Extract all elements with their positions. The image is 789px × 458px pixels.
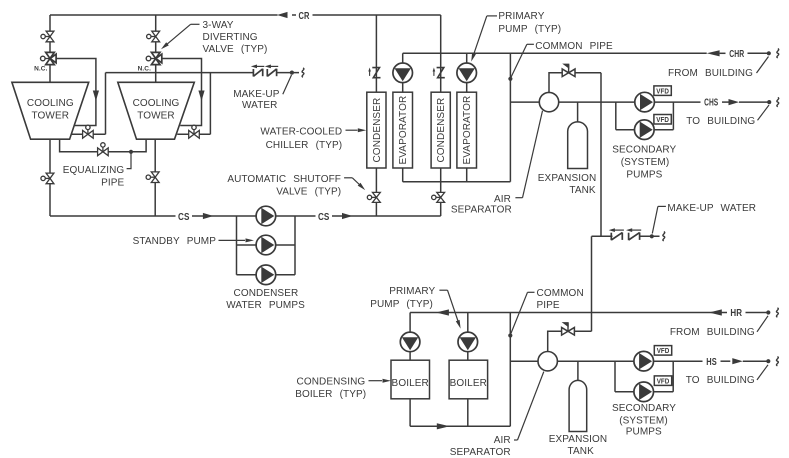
svg-text:VFD: VFD	[657, 346, 670, 355]
pump secondary pump 2 (hw)	[634, 382, 654, 402]
svg-text:COOLING: COOLING	[133, 98, 180, 109]
flow arrow on CHS (right)	[729, 99, 740, 105]
wire equalizing pipe between towers	[60, 139, 147, 152]
valve on tower 2 side connection	[193, 128, 195, 134]
wire evaporator 2 drop	[466, 168, 468, 182]
flow arrow on CR header (left)	[277, 12, 288, 18]
svg-text:CHS: CHS	[704, 98, 718, 109]
wire expansion tank stub (chw)	[577, 102, 579, 124]
valve on tower 2 outlet	[149, 176, 155, 178]
valve on equalizing pipe	[102, 146, 104, 152]
pump condenser water pump 1	[256, 206, 276, 226]
svg-text:TO BUILDING: TO BUILDING	[686, 375, 755, 386]
svg-text:3-WAY: 3-WAY	[203, 20, 234, 31]
wire make-up feed leg (hw)	[591, 236, 593, 331]
svg-text:N.C.: N.C.	[34, 66, 47, 73]
flow arrow on CHR header (left)	[707, 50, 720, 56]
svg-text:WATER-COOLED: WATER-COOLED	[260, 126, 342, 137]
svg-text:BOILER (TYP): BOILER (TYP)	[295, 389, 366, 400]
node HS building junction	[766, 359, 770, 363]
svg-text:COMMON PIPE: COMMON PIPE	[535, 41, 613, 52]
wire condenser 1 riser	[375, 15, 377, 92]
check valves on system make-up line	[610, 233, 612, 241]
wire tower 1 inlet riser	[49, 15, 51, 82]
pipe break symbol, tower make-up	[302, 68, 304, 77]
valve (gate) on tower 1 riser	[44, 36, 50, 38]
svg-text:CS: CS	[178, 212, 190, 223]
wire boiler outlet header	[410, 425, 510, 427]
wire CS condenser supply line	[50, 215, 176, 217]
air separator (hw)	[538, 352, 557, 371]
3-way diverting valve, tower 2	[149, 58, 155, 60]
svg-text:HR: HR	[730, 308, 742, 319]
wire condenser 2 drop to CS	[440, 168, 442, 216]
svg-text:EXPANSION: EXPANSION	[538, 173, 597, 184]
svg-text:BOILER: BOILER	[450, 378, 487, 389]
svg-text:CR: CR	[299, 11, 310, 22]
check valves on tower make-up line	[252, 69, 254, 77]
svg-text:TANK: TANK	[568, 446, 595, 457]
pump boiler primary pump 2	[467, 313, 469, 361]
node common pipe label junction (chw)	[508, 77, 512, 81]
node make-up source junction	[290, 71, 294, 75]
wire make-up riser at tower 2	[209, 73, 211, 135]
flow arrow on HR header mid (left)	[436, 309, 449, 315]
pump secondary pump 1 (hw)	[634, 351, 654, 371]
pump secondary pump 2 (chw)	[635, 120, 655, 140]
svg-text:CONDENSING: CONDENSING	[297, 376, 366, 387]
svg-text:N.C.: N.C.	[138, 66, 151, 73]
check valve on make-up feed (chw)	[562, 69, 568, 77]
wire make-up riser at tower 1	[105, 73, 107, 135]
svg-text:(SYSTEM): (SYSTEM)	[621, 157, 670, 168]
node CHS building junction	[767, 100, 771, 104]
svg-text:EVAPORATOR: EVAPORATOR	[462, 96, 473, 165]
flow arrow on HS (right)	[732, 358, 743, 364]
svg-text:SECONDARY: SECONDARY	[612, 144, 676, 155]
svg-text:CHR: CHR	[729, 49, 744, 60]
wire evaporator 1 drop	[402, 168, 404, 182]
wire boiler 1 drop	[409, 399, 411, 427]
boiler 1	[391, 360, 430, 399]
flow arrow on CS right segment	[342, 213, 353, 219]
VFD box pump 2 (hw)	[654, 376, 671, 386]
svg-text:CS: CS	[318, 212, 330, 223]
svg-text:COMMON: COMMON	[537, 288, 584, 299]
svg-text:WATER: WATER	[242, 100, 278, 111]
wire evaporator outlet header	[403, 181, 511, 183]
svg-text:DIVERTING: DIVERTING	[203, 32, 258, 43]
wire CHS main line	[510, 101, 700, 103]
pipe break symbol CHS	[777, 98, 779, 107]
flow arrow on HR header right (left)	[709, 309, 722, 315]
pump secondary pump 1 (chw)	[635, 92, 655, 112]
pipe break symbol CHR	[777, 49, 779, 58]
wire HS main line	[510, 360, 702, 362]
chiller 2 condenser vessel	[431, 92, 450, 168]
wire tower 2 inlet riser	[155, 15, 157, 82]
svg-text:CHILLER (TYP): CHILLER (TYP)	[266, 140, 343, 151]
wire air-separator bypass loop (chw)	[549, 73, 601, 93]
automatic shutoff valve 2	[434, 196, 440, 198]
svg-text:EXPANSION: EXPANSION	[549, 434, 608, 445]
air separator (chw)	[539, 92, 558, 111]
node make-up source junction (systems)	[650, 234, 654, 238]
svg-text:VALVE (TYP): VALVE (TYP)	[276, 186, 341, 197]
svg-text:AIR: AIR	[494, 194, 511, 205]
wire common pipe (chw)	[509, 53, 511, 182]
chiller 1 evaporator vessel	[393, 92, 413, 168]
pipe break symbol HS	[776, 357, 778, 366]
cooling tower 2	[118, 82, 195, 139]
valve (gate) on tower 2 riser	[149, 36, 155, 38]
valve on tower 1 outlet	[44, 177, 50, 179]
svg-text:EQUALIZING: EQUALIZING	[63, 165, 125, 176]
svg-text:EVAPORATOR: EVAPORATOR	[398, 96, 409, 165]
wire tower 1 outlet drop	[49, 139, 51, 216]
svg-text:BOILER: BOILER	[392, 378, 429, 389]
svg-text:PUMP (TYP): PUMP (TYP)	[370, 299, 433, 310]
svg-text:VFD: VFD	[656, 115, 669, 124]
svg-text:PRIMARY: PRIMARY	[498, 11, 544, 22]
svg-text:STANDBY PUMP: STANDBY PUMP	[133, 236, 217, 247]
svg-text:FROM BUILDING: FROM BUILDING	[670, 327, 755, 338]
pump condenser water pump 2 (standby)	[256, 235, 276, 255]
pipe break symbol make-up (systems)	[663, 232, 665, 241]
svg-text:MAKE-UP: MAKE-UP	[233, 89, 279, 100]
pump chiller primary pump 1	[402, 53, 404, 92]
svg-text:PUMP (TYP): PUMP (TYP)	[498, 24, 561, 35]
svg-text:CONDENSER: CONDENSER	[372, 98, 383, 163]
chiller 1 condenser vessel	[367, 92, 386, 168]
node CHR building junction	[767, 51, 771, 55]
svg-text:TANK: TANK	[569, 185, 596, 196]
flow arrow on CS (right)	[203, 213, 214, 219]
chiller 2 evaporator vessel	[457, 92, 477, 168]
wire CHR header from building	[403, 52, 707, 54]
flow arrow down on bypass 1	[93, 91, 99, 102]
svg-text:PIPE: PIPE	[101, 178, 124, 189]
pump condenser water pump 3	[256, 265, 276, 285]
svg-text:PUMPS: PUMPS	[626, 426, 662, 437]
wire bypass from 3-way valve 1 into tower 1 basin	[56, 59, 96, 126]
svg-text:SEPARATOR: SEPARATOR	[451, 204, 512, 215]
wire condenser water pump manifold	[236, 216, 238, 275]
expansion tank (chw)	[568, 122, 588, 169]
svg-text:PIPE: PIPE	[537, 300, 560, 311]
svg-text:CONDENSER: CONDENSER	[436, 98, 447, 163]
pump chiller primary pump 2	[466, 53, 468, 92]
wire secondary pump manifold (hw)	[614, 361, 616, 392]
wire secondary pump manifold (chw)	[615, 102, 617, 130]
wire tower 2 outlet drop	[154, 139, 156, 216]
svg-text:(SYSTEM): (SYSTEM)	[619, 415, 668, 426]
wire boiler 2 drop	[467, 399, 469, 427]
wire tower 1 side (make-up) connection	[71, 133, 105, 135]
svg-text:WATER PUMPS: WATER PUMPS	[226, 300, 305, 311]
svg-text:CONDENSER: CONDENSER	[234, 288, 299, 299]
VFD box pump 2 (chw)	[654, 115, 671, 125]
svg-text:MAKE-UP WATER: MAKE-UP WATER	[667, 203, 756, 214]
wire make-up water line (towers)	[106, 72, 254, 74]
svg-text:VALVE (TYP): VALVE (TYP)	[203, 44, 268, 55]
label EQUALIZING PIPE with leader	[127, 152, 131, 169]
valve (balancing) on condenser 1 riser	[372, 68, 380, 78]
svg-text:HS: HS	[706, 357, 717, 368]
cooling tower 1	[12, 82, 89, 139]
svg-text:SECONDARY: SECONDARY	[612, 403, 676, 414]
3-way diverting valve, tower 1	[44, 58, 50, 60]
VFD box pump 1 (chw)	[654, 86, 671, 96]
svg-text:AUTOMATIC SHUTOFF: AUTOMATIC SHUTOFF	[227, 174, 341, 185]
valve on tower 1 side connection	[87, 128, 89, 134]
wire condenser 1 drop to CS	[375, 168, 377, 216]
wire HR header from building	[410, 312, 727, 314]
valve (balancing) on condenser 2 riser	[437, 68, 445, 78]
wire expansion tank stub (hw)	[577, 361, 579, 383]
wire common pipe (hw)	[509, 313, 511, 427]
boiler 2	[449, 360, 488, 399]
svg-text:TOWER: TOWER	[32, 111, 70, 122]
node HR building junction	[766, 310, 770, 314]
svg-text:AIR: AIR	[494, 435, 511, 446]
wire condenser 2 riser	[440, 15, 442, 92]
pipe break symbol HR	[776, 308, 778, 317]
flow arrow on boiler outlet header (right)	[437, 423, 450, 429]
node equalizing pipe label junction	[129, 150, 133, 154]
automatic shutoff valve 1	[370, 196, 376, 198]
wire CR top header	[50, 14, 278, 16]
check valve on make-up feed (hw)	[562, 328, 568, 336]
svg-text:VFD: VFD	[656, 87, 669, 96]
svg-text:VFD: VFD	[657, 377, 670, 386]
svg-text:COOLING: COOLING	[27, 98, 74, 109]
wire tower 2 side (make-up) connection	[177, 133, 210, 135]
svg-text:SEPARATOR: SEPARATOR	[450, 447, 511, 458]
flow arrow down on bypass 2	[198, 91, 204, 102]
svg-text:FROM BUILDING: FROM BUILDING	[668, 68, 753, 79]
wire make-up water line (systems)	[592, 235, 613, 237]
expansion tank (hw)	[569, 380, 587, 431]
svg-text:TO BUILDING: TO BUILDING	[686, 116, 755, 127]
pump boiler primary pump 1	[409, 313, 411, 361]
svg-text:PUMPS: PUMPS	[626, 170, 662, 181]
VFD box pump 1 (hw)	[654, 346, 671, 356]
wire make-up feed leg (chw)	[600, 73, 602, 237]
wire bypass from 3-way valve 2 into tower 2 basin	[162, 59, 202, 126]
svg-text:TOWER: TOWER	[137, 111, 175, 122]
svg-text:PRIMARY: PRIMARY	[389, 286, 435, 297]
node common pipe label junction (hw)	[508, 333, 512, 337]
wire air-separator bypass loop (hw)	[548, 331, 592, 352]
